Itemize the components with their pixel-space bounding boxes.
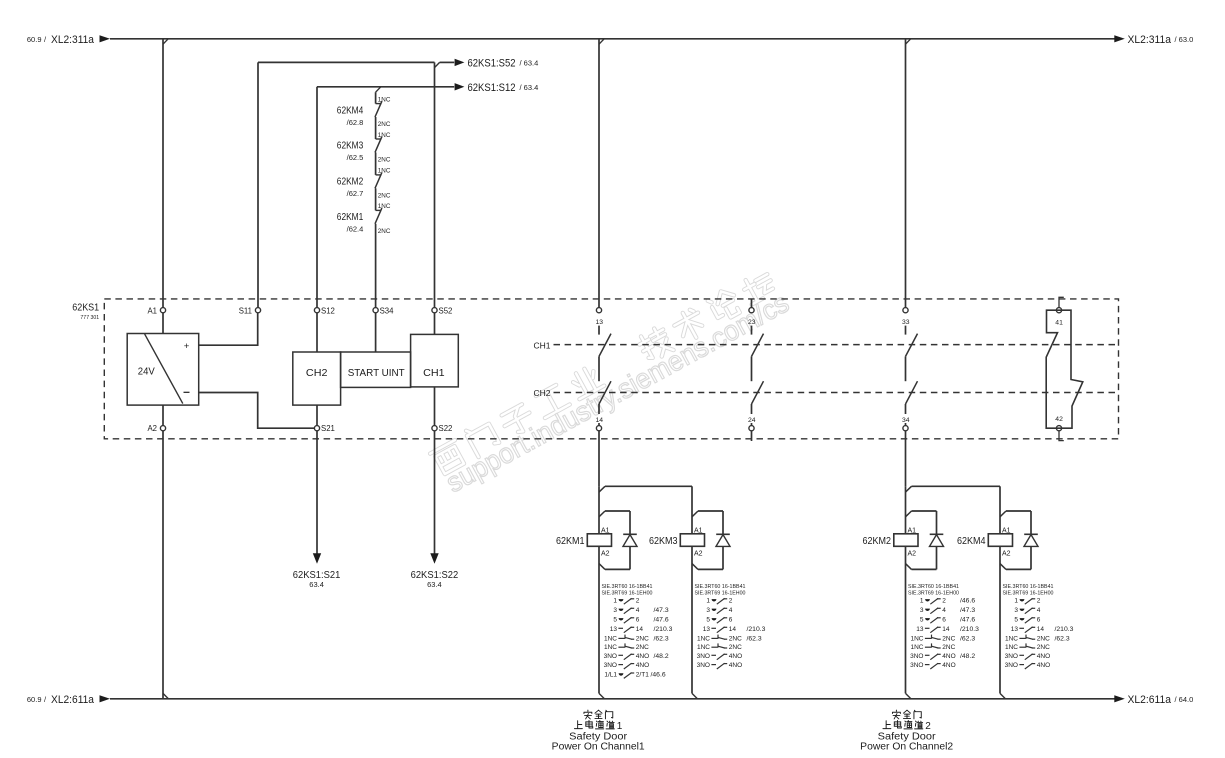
wire A1 to 24V unit [162, 313, 164, 334]
arrow 62KS1:S21 [313, 553, 321, 564]
svg-text:2NC: 2NC [729, 635, 742, 642]
watermark diagonal text [429, 266, 794, 499]
terminal S21 [314, 426, 319, 431]
wire terminal to CH1 contact x=599 [598, 326, 600, 335]
net CH2 dashed line [554, 392, 1119, 394]
suppressor diode branch top of 62KM3 [692, 511, 698, 517]
svg-text:XL2:311a: XL2:311a [51, 34, 95, 46]
svg-text:/46.6: /46.6 [960, 597, 975, 604]
svg-text:SIE.3RT69 16-1EH00: SIE.3RT69 16-1EH00 [1003, 591, 1054, 597]
svg-text:777 301: 777 301 [80, 315, 99, 321]
svg-text:S34: S34 [380, 306, 395, 315]
svg-text:4NO: 4NO [729, 662, 742, 669]
svg-text:3: 3 [920, 607, 924, 614]
target arrow right bottom [1114, 695, 1125, 702]
svg-text:1NC: 1NC [910, 635, 923, 642]
wire chain segment above 62KM3 [375, 117, 377, 139]
svg-text:/62.3: /62.3 [1055, 635, 1070, 642]
arrow 62KS1:S22 [430, 553, 438, 564]
svg-text:/210.3: /210.3 [1055, 626, 1074, 633]
svg-text:24V: 24V [138, 365, 155, 377]
svg-text:/ 63.4: / 63.4 [520, 83, 539, 92]
svg-text:3NO: 3NO [910, 653, 923, 660]
wire A2 of 62KM1 to bottom rail [598, 546, 600, 693]
terminal 33 [903, 308, 908, 313]
svg-text:34: 34 [902, 417, 910, 424]
wire S12 vertical [316, 87, 318, 308]
svg-text:1NC: 1NC [378, 168, 391, 175]
svg-text:6: 6 [636, 616, 640, 623]
svg-text:/ 64.0: / 64.0 [1175, 695, 1194, 704]
svg-text:1NC: 1NC [910, 644, 923, 651]
wire diode top of 62KM1 [629, 511, 631, 534]
suppressor diode branch top of 62KM4 [1000, 511, 1006, 517]
svg-text:62KM2: 62KM2 [337, 177, 364, 188]
contact NO CH1 x=599 [599, 334, 611, 357]
svg-text:CH1: CH1 [423, 367, 445, 379]
suppressor diode branch bottom of 62KM3 [698, 568, 723, 570]
terminal A2 [160, 426, 165, 431]
wire diode bottom of 62KM2 [936, 546, 938, 569]
wire diode top of 62KM4 [1030, 511, 1032, 534]
wire between contacts x=905.5 [905, 356, 907, 381]
wire stub below terminal 42 [1059, 431, 1064, 441]
svg-text:1NC: 1NC [697, 644, 710, 651]
svg-text:SIE.3RT69 16-1EH00: SIE.3RT69 16-1EH00 [602, 591, 653, 597]
svg-text:2NC: 2NC [636, 644, 649, 651]
svg-text:2: 2 [729, 597, 733, 604]
svg-text:A2: A2 [908, 551, 917, 558]
svg-text:/47.6: /47.6 [960, 616, 975, 623]
svg-text:4: 4 [729, 607, 733, 614]
block START UINT [341, 352, 411, 387]
svg-text:CH2: CH2 [306, 367, 328, 379]
svg-text:A1: A1 [147, 306, 157, 315]
diode V62KM2 [930, 533, 944, 535]
svg-text:1: 1 [920, 597, 924, 604]
svg-text:2NC: 2NC [942, 635, 955, 642]
wire CH2 contact to terminal x=751.5 [751, 404, 753, 414]
junction bevel S52 tap [435, 62, 440, 67]
target arrow right top [1114, 35, 1125, 42]
svg-text:60.9: 60.9 [27, 35, 42, 44]
wire CH1 to S22 [434, 387, 436, 426]
svg-text:24: 24 [748, 417, 756, 424]
junction bottom rail x=692 [692, 693, 697, 698]
svg-text:2NC: 2NC [1037, 644, 1050, 651]
svg-text:62KM3: 62KM3 [337, 141, 364, 152]
wire A2 of 62KM4 to bottom rail [999, 546, 1001, 693]
svg-text:1NC: 1NC [604, 635, 617, 642]
svg-text:14: 14 [942, 626, 950, 633]
svg-text:2NC: 2NC [942, 644, 955, 651]
svg-text:14: 14 [729, 626, 737, 633]
svg-text:/ 63.4: / 63.4 [520, 59, 539, 68]
svg-text:Power On Channel2: Power On Channel2 [860, 742, 953, 753]
svg-text:41: 41 [1055, 319, 1063, 326]
source arrow left top [100, 35, 111, 42]
svg-text:2: 2 [1037, 597, 1041, 604]
wire 24V- to S21 [199, 393, 315, 429]
svg-text:A2: A2 [601, 551, 610, 558]
svg-text:/62.4: /62.4 [347, 225, 364, 234]
branch to 62KM3 coil [599, 486, 605, 492]
svg-text:1NC: 1NC [378, 203, 391, 210]
svg-text:62KM4: 62KM4 [337, 105, 364, 116]
wire between contacts x=599 [598, 356, 600, 381]
wire from terminal down to 62KM1 branch [598, 431, 600, 487]
junction bottom rail x=1000 [1000, 693, 1005, 698]
terminal 34 [903, 426, 908, 431]
svg-text:/47.3: /47.3 [960, 607, 975, 614]
svg-text:A2: A2 [147, 424, 157, 433]
svg-text:/62.8: /62.8 [347, 118, 364, 127]
svg-text:62KM4: 62KM4 [957, 535, 986, 547]
svg-text:2: 2 [636, 597, 640, 604]
suppressor diode branch bottom of 62KM2 [912, 568, 937, 570]
wire S34 to START UINT [375, 313, 377, 352]
svg-text:13: 13 [1011, 626, 1019, 633]
suppressor diode branch bottom of 62KM1 [605, 568, 630, 570]
wire A2 of 62KM2 to bottom rail [905, 546, 907, 693]
wire terminal to CH1 contact x=751.5 [751, 326, 753, 335]
wire from top rail x=599 [598, 39, 600, 308]
svg-text:42: 42 [1055, 416, 1063, 423]
svg-text:/62.3: /62.3 [960, 635, 975, 642]
svg-text:2NC: 2NC [729, 644, 742, 651]
minus terminal label [184, 391, 190, 393]
svg-text:S11: S11 [239, 306, 252, 315]
terminal 24 [749, 426, 754, 431]
wire stub below terminal 24 [751, 431, 753, 441]
svg-text:2NC: 2NC [1037, 635, 1050, 642]
arrow 62KS1:S12 [455, 83, 465, 90]
wire CH2 to S21 [316, 405, 318, 426]
safety relay 62KS1 dashed enclosure [104, 299, 1118, 439]
svg-text:6: 6 [1037, 616, 1041, 623]
diode V62KM4 [1024, 533, 1038, 535]
svg-text:SIE.3RT60 16-1BB41: SIE.3RT60 16-1BB41 [602, 584, 653, 590]
svg-text:6: 6 [942, 616, 946, 623]
svg-text:4: 4 [1037, 607, 1041, 614]
wire A1 vertical from top rail [162, 39, 164, 308]
svg-text:4NO: 4NO [942, 653, 955, 660]
svg-text:63.4: 63.4 [427, 580, 442, 589]
svg-text:5: 5 [1014, 616, 1018, 623]
svg-text:2NC: 2NC [378, 228, 391, 235]
wire S21 down [316, 431, 318, 554]
wire chain segment above 62KM4 [375, 92, 377, 103]
svg-text:4NO: 4NO [942, 662, 955, 669]
suppressor diode branch top of 62KM2 [906, 511, 912, 517]
terminal S52 [432, 308, 437, 313]
svg-text:2: 2 [942, 597, 946, 604]
svg-text:3NO: 3NO [910, 662, 923, 669]
wire feed to coil 62KM1 [598, 486, 600, 533]
svg-text:62KM2: 62KM2 [863, 535, 892, 547]
contact NC 62KM3 [376, 138, 382, 140]
caption chinese power-on channel [574, 721, 582, 729]
svg-text:14: 14 [636, 626, 644, 633]
diode V62KM3 [716, 533, 730, 535]
power supply 24V unit U1 [127, 334, 199, 406]
svg-text:XL2:311a: XL2:311a [1128, 34, 1172, 46]
svg-text:5: 5 [706, 616, 710, 623]
svg-text:1: 1 [613, 597, 617, 604]
svg-text:SIE.3RT60 16-1BB41: SIE.3RT60 16-1BB41 [695, 584, 746, 590]
wire stub above terminal x=751.5 [751, 299, 753, 308]
svg-text:/210.3: /210.3 [747, 626, 766, 633]
contactor coil 62KM4 [988, 534, 1012, 547]
svg-text:/62.3: /62.3 [747, 635, 762, 642]
svg-text:4: 4 [636, 607, 640, 614]
terminal 41 [1056, 308, 1061, 313]
terminal 23 [749, 308, 754, 313]
svg-text:/ 63.0: / 63.0 [1175, 35, 1194, 44]
terminal 14 [596, 426, 601, 431]
wire S22 down [434, 431, 436, 554]
wire diode bottom of 62KM1 [629, 546, 631, 569]
contactor coil 62KM1 [587, 534, 611, 547]
svg-text:4: 4 [942, 607, 946, 614]
svg-text:1NC: 1NC [604, 644, 617, 651]
svg-text:SIE.3RT69 16-1EH00: SIE.3RT69 16-1EH00 [695, 591, 746, 597]
svg-text:6: 6 [729, 616, 733, 623]
contact NO CH1 x=905.5 [906, 334, 918, 357]
svg-text:62KM1: 62KM1 [337, 212, 364, 223]
wire diode top of 62KM3 [722, 511, 724, 534]
svg-text:1: 1 [706, 597, 710, 604]
svg-text:/48.2: /48.2 [654, 653, 669, 660]
svg-text:60.9: 60.9 [27, 695, 42, 704]
svg-text:13: 13 [610, 626, 618, 633]
svg-text:62KS1: 62KS1 [72, 303, 99, 314]
arrow 62KS1:S52 [455, 59, 465, 66]
wire 24V+ to S11 [199, 313, 258, 345]
svg-text:Power On Channel1: Power On Channel1 [552, 742, 645, 753]
svg-text:1: 1 [1014, 597, 1018, 604]
svg-text:5: 5 [920, 616, 924, 623]
svg-text:13: 13 [596, 319, 604, 326]
svg-text:/210.3: /210.3 [654, 626, 673, 633]
svg-text:2/T1: 2/T1 [636, 672, 649, 679]
svg-text:23: 23 [748, 319, 756, 326]
block CH1 [411, 334, 459, 387]
wire terminal to CH1 contact x=905.5 [905, 326, 907, 335]
wire feed to coil 62KM4 [999, 486, 1001, 533]
svg-text:/48.2: /48.2 [960, 653, 975, 660]
svg-text:13: 13 [916, 626, 924, 633]
svg-text:1NC: 1NC [1005, 644, 1018, 651]
svg-text:33: 33 [902, 319, 910, 326]
svg-text:2NC: 2NC [636, 635, 649, 642]
svg-text:4NO: 4NO [636, 653, 649, 660]
wire A2 of 62KM3 to bottom rail [691, 546, 693, 693]
svg-text:2NC: 2NC [378, 157, 391, 164]
junction top rail x=905.5 [906, 39, 911, 44]
suppressor diode branch top of 62KM1 [599, 511, 605, 517]
wire diode bottom of 62KM3 [722, 546, 724, 569]
contact NC 62KM4 [376, 103, 382, 105]
terminal S11 [255, 308, 260, 313]
svg-text:+: + [184, 341, 190, 352]
wire diode top of 62KM2 [936, 511, 938, 534]
terminal S12 [314, 308, 319, 313]
svg-text:3NO: 3NO [604, 662, 617, 669]
svg-text:S21: S21 [321, 424, 335, 433]
svg-text:/62.7: /62.7 [347, 189, 364, 198]
svg-text:S52: S52 [439, 306, 453, 315]
wire feed to coil 62KM3 [691, 486, 693, 533]
node XL2:611a bottom rail [110, 698, 1115, 700]
svg-text:1NC: 1NC [378, 132, 391, 139]
terminal A1 [160, 308, 165, 313]
svg-text:/62.5: /62.5 [347, 153, 364, 162]
wire CH2 contact to terminal x=599 [598, 404, 600, 414]
junction top rail x=163 [163, 39, 168, 44]
svg-text:3NO: 3NO [697, 662, 710, 669]
wire S12 to CH2 [316, 313, 318, 352]
svg-text:4NO: 4NO [1037, 662, 1050, 669]
wire between contacts x=751.5 [751, 356, 753, 381]
wire diode bottom of 62KM4 [1030, 546, 1032, 569]
wire A2 from 24V unit [162, 405, 164, 426]
svg-text:3NO: 3NO [1005, 653, 1018, 660]
svg-text:CH1: CH1 [534, 340, 551, 350]
svg-text:/46.6: /46.6 [651, 672, 666, 679]
svg-text:3NO: 3NO [697, 653, 710, 660]
svg-text:A2: A2 [1002, 551, 1011, 558]
wire from terminal down to 62KM2 branch [905, 431, 907, 487]
junction bottom rail x=163 [163, 693, 168, 698]
svg-text:XL2:611a: XL2:611a [1128, 694, 1172, 706]
wire S52 to CH1 [434, 313, 436, 335]
terminal 42 [1056, 426, 1061, 431]
junction bottom rail x=905.5 [906, 693, 911, 698]
contact NC 62KM1 [376, 209, 382, 211]
contactor coil 62KM3 [680, 534, 704, 547]
caption chinese power-on channel [883, 721, 891, 729]
svg-text:/: / [44, 35, 47, 44]
svg-text:4NO: 4NO [729, 653, 742, 660]
wire CH2 contact to terminal x=905.5 [905, 404, 907, 414]
node XL2:311a top rail [110, 38, 1115, 40]
wire feed to coil 62KM2 [905, 486, 907, 533]
wire S52 vertical [434, 62, 436, 307]
svg-text:START UINT: START UINT [348, 367, 406, 379]
caption chinese safety door [892, 710, 900, 719]
svg-text:3: 3 [613, 607, 617, 614]
svg-text:/47.3: /47.3 [654, 607, 669, 614]
svg-text:3NO: 3NO [604, 653, 617, 660]
block CH2 [293, 352, 341, 405]
svg-text:5: 5 [613, 616, 617, 623]
wire S11 branch horizontal [258, 61, 435, 63]
svg-text:3: 3 [1014, 607, 1018, 614]
svg-text:62KM1: 62KM1 [556, 535, 585, 547]
branch to 62KM4 coil [906, 486, 912, 492]
wire to 62KS1:S52 arrow [440, 61, 455, 63]
net CH1 dashed line [554, 344, 1119, 346]
wire chain segment above 62KM2 [375, 152, 377, 175]
svg-text:support.industry.siemens.com/c: support.industry.siemens.com/cs [441, 287, 794, 499]
svg-text:1/L1: 1/L1 [604, 672, 617, 679]
svg-text:4NO: 4NO [636, 662, 649, 669]
svg-text:A2: A2 [694, 551, 703, 558]
junction top rail x=599 [599, 39, 604, 44]
terminal S34 [373, 308, 378, 313]
terminal 13 [596, 308, 601, 313]
svg-text:1NC: 1NC [1005, 635, 1018, 642]
svg-text:XL2:611a: XL2:611a [51, 694, 95, 706]
svg-text:2NC: 2NC [378, 121, 391, 128]
contact NO CH1 x=751.5 [752, 334, 764, 357]
svg-text:SIE.3RT69 16-1EH00: SIE.3RT69 16-1EH00 [908, 591, 959, 597]
wire from top rail x=905.5 [905, 39, 907, 308]
wire chain segment to S34 [375, 224, 377, 308]
svg-text:4NO: 4NO [1037, 653, 1050, 660]
svg-text:62KM3: 62KM3 [649, 535, 678, 547]
svg-text:13: 13 [703, 626, 711, 633]
svg-text:/: / [44, 695, 47, 704]
svg-text:63.4: 63.4 [309, 580, 324, 589]
svg-text:14: 14 [596, 417, 604, 424]
svg-text:1NC: 1NC [378, 96, 391, 103]
terminal S22 [432, 426, 437, 431]
svg-text:1NC: 1NC [697, 635, 710, 642]
contact NO CH2 x=599 [599, 381, 611, 404]
svg-text:62KS1:S52: 62KS1:S52 [468, 58, 516, 70]
svg-text:3NO: 3NO [1005, 662, 1018, 669]
junction bottom rail x=599 [599, 693, 604, 698]
contact NO CH2 x=905.5 [906, 381, 918, 404]
wire chain segment above 62KM1 [375, 188, 377, 210]
svg-text:Safety Door: Safety Door [878, 731, 937, 742]
svg-text:/210.3: /210.3 [960, 626, 979, 633]
suppressor diode branch bottom of 62KM4 [1006, 568, 1031, 570]
junction bevel NC chain tap [376, 87, 381, 92]
wire A2 vertical to bottom rail [162, 431, 164, 699]
diode V62KM1 [623, 533, 637, 535]
svg-text:/47.6: /47.6 [654, 616, 669, 623]
wire S11 vertical [257, 62, 259, 307]
source arrow left bottom [100, 695, 111, 702]
contact NO CH2 x=751.5 [752, 381, 764, 404]
svg-text:SIE.3RT60 16-1BB41: SIE.3RT60 16-1BB41 [1003, 584, 1054, 590]
svg-text:SIE.3RT60 16-1BB41: SIE.3RT60 16-1BB41 [908, 584, 959, 590]
svg-text:/62.3: /62.3 [654, 635, 669, 642]
contactor coil 62KM2 [894, 534, 918, 547]
caption chinese safety door [584, 710, 592, 719]
svg-text:S22: S22 [439, 424, 453, 433]
svg-text:Safety Door: Safety Door [569, 731, 628, 742]
svg-text:2NC: 2NC [378, 193, 391, 200]
svg-text:3: 3 [706, 607, 710, 614]
mirror contact block outline 41-42 [1046, 310, 1083, 428]
svg-text:S12: S12 [321, 306, 335, 315]
wire stub above terminal 41 [1059, 297, 1064, 307]
wire S12 horizontal [317, 86, 454, 88]
svg-text:62KS1:S12: 62KS1:S12 [468, 82, 516, 94]
contact NC 62KM2 [376, 174, 382, 176]
svg-text:14: 14 [1037, 626, 1045, 633]
svg-text:CH2: CH2 [534, 388, 551, 398]
